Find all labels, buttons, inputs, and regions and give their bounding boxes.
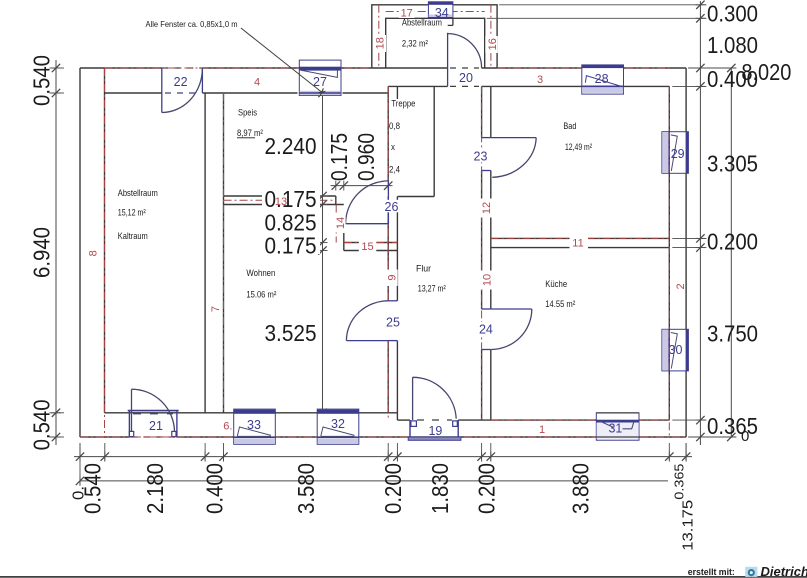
svg-text:0,8: 0,8 bbox=[389, 121, 400, 132]
svg-text:0.365: 0.365 bbox=[671, 464, 686, 500]
svg-text:2,4: 2,4 bbox=[389, 165, 400, 176]
svg-text:0: 0 bbox=[741, 428, 749, 445]
svg-text:13: 13 bbox=[275, 196, 287, 208]
svg-text:Speis: Speis bbox=[238, 108, 257, 119]
svg-text:3.305: 3.305 bbox=[707, 150, 758, 176]
svg-text:0.300: 0.300 bbox=[707, 0, 758, 26]
svg-text:23: 23 bbox=[474, 150, 488, 164]
svg-text:14.55 m²: 14.55 m² bbox=[545, 299, 575, 310]
svg-text:10: 10 bbox=[481, 274, 493, 286]
svg-text:Alle Fenster ca. 0,85x1,0 m: Alle Fenster ca. 0,85x1,0 m bbox=[146, 20, 238, 29]
svg-text:1.080: 1.080 bbox=[707, 32, 758, 58]
svg-text:9: 9 bbox=[387, 274, 399, 280]
svg-text:0.200: 0.200 bbox=[707, 228, 758, 254]
svg-text:Bad: Bad bbox=[563, 121, 576, 132]
svg-text:15,12 m²: 15,12 m² bbox=[118, 207, 146, 218]
svg-text:0.960: 0.960 bbox=[353, 133, 379, 181]
svg-text:Abstellraum: Abstellraum bbox=[118, 188, 158, 199]
svg-text:6.: 6. bbox=[223, 421, 232, 433]
svg-text:3.880: 3.880 bbox=[567, 463, 593, 514]
svg-text:33: 33 bbox=[247, 418, 261, 432]
svg-text:0.175: 0.175 bbox=[326, 133, 352, 181]
svg-text:8: 8 bbox=[88, 250, 100, 256]
svg-text:0.200: 0.200 bbox=[474, 463, 500, 514]
svg-text:0.540: 0.540 bbox=[29, 55, 55, 106]
svg-text:27: 27 bbox=[313, 75, 327, 89]
svg-text:4: 4 bbox=[254, 76, 260, 88]
svg-text:2.240: 2.240 bbox=[265, 133, 317, 159]
svg-text:31: 31 bbox=[608, 422, 622, 436]
svg-text:28: 28 bbox=[595, 72, 609, 86]
svg-text:0.540: 0.540 bbox=[29, 399, 55, 450]
svg-text:29: 29 bbox=[671, 147, 685, 161]
svg-text:0.365: 0.365 bbox=[707, 413, 758, 439]
svg-text:12: 12 bbox=[481, 202, 493, 214]
svg-text:11: 11 bbox=[572, 238, 583, 250]
svg-text:Küche: Küche bbox=[545, 279, 567, 290]
svg-text:25: 25 bbox=[386, 316, 400, 330]
svg-text:3: 3 bbox=[537, 74, 543, 86]
svg-text:22: 22 bbox=[174, 75, 188, 89]
svg-text:0.400: 0.400 bbox=[707, 66, 758, 92]
svg-text:erstellt mit:: erstellt mit: bbox=[688, 567, 735, 577]
svg-text:2: 2 bbox=[675, 283, 687, 289]
svg-text:15: 15 bbox=[361, 241, 373, 253]
svg-text:24: 24 bbox=[479, 323, 493, 337]
svg-text:14: 14 bbox=[335, 217, 347, 229]
svg-text:0.400: 0.400 bbox=[202, 463, 228, 514]
svg-text:13.175: 13.175 bbox=[680, 500, 697, 551]
svg-text:Wohnen: Wohnen bbox=[246, 268, 275, 279]
svg-text:Dietrich's: Dietrich's bbox=[761, 564, 807, 578]
svg-text:16: 16 bbox=[487, 38, 499, 50]
svg-text:1: 1 bbox=[539, 424, 545, 436]
svg-text:34: 34 bbox=[435, 6, 449, 20]
svg-text:6.940: 6.940 bbox=[29, 227, 55, 278]
svg-text:x: x bbox=[391, 142, 395, 153]
svg-text:30: 30 bbox=[669, 343, 683, 357]
svg-text:0.: 0. bbox=[70, 486, 87, 500]
svg-text:15.06 m²: 15.06 m² bbox=[246, 290, 276, 301]
svg-text:0.200: 0.200 bbox=[380, 463, 406, 514]
svg-text:26: 26 bbox=[385, 200, 399, 214]
svg-text:13,27 m²: 13,27 m² bbox=[418, 284, 446, 295]
svg-text:3.750: 3.750 bbox=[707, 320, 758, 346]
svg-text:17: 17 bbox=[401, 7, 413, 19]
svg-text:3.525: 3.525 bbox=[265, 320, 317, 346]
svg-text:0.175: 0.175 bbox=[265, 232, 317, 258]
svg-text:19: 19 bbox=[428, 424, 442, 438]
svg-text:8,97 m²: 8,97 m² bbox=[237, 128, 263, 139]
svg-text:32: 32 bbox=[331, 417, 345, 431]
svg-text:21: 21 bbox=[149, 419, 163, 433]
svg-text:20: 20 bbox=[459, 71, 473, 85]
svg-text:2.180: 2.180 bbox=[142, 463, 168, 514]
svg-text:Kaltraum: Kaltraum bbox=[118, 231, 148, 242]
svg-text:Treppe: Treppe bbox=[391, 99, 415, 110]
svg-text:2,32 m²: 2,32 m² bbox=[402, 38, 428, 49]
svg-text:18: 18 bbox=[375, 37, 387, 49]
svg-text:0.175: 0.175 bbox=[265, 186, 317, 212]
svg-text:1.830: 1.830 bbox=[427, 463, 453, 514]
svg-text:Flur: Flur bbox=[416, 264, 431, 275]
svg-text:7: 7 bbox=[210, 306, 222, 312]
svg-text:3.580: 3.580 bbox=[293, 463, 319, 514]
svg-text:12,49 m²: 12,49 m² bbox=[565, 142, 592, 153]
